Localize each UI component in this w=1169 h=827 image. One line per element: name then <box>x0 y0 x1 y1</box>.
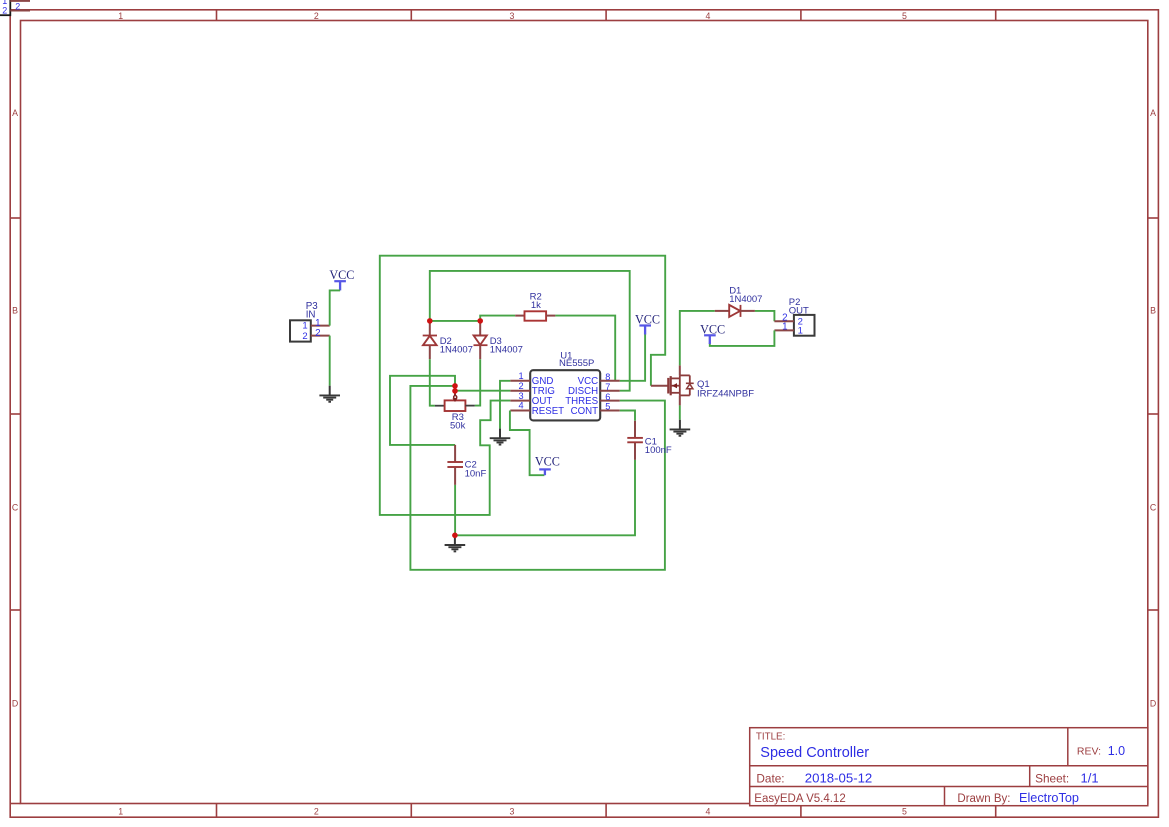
transistor Q1 IRFZ44NPBF <box>651 365 754 405</box>
svg-text:1N4007: 1N4007 <box>729 294 762 305</box>
wire DISCH pin7 to D2 junction <box>430 271 630 391</box>
svg-text:3: 3 <box>510 807 515 817</box>
wire P3 pin2 to ground <box>329 336 331 386</box>
svg-text:B: B <box>12 306 18 316</box>
wire D2 to R3 left <box>430 359 435 406</box>
svg-text:6: 6 <box>605 392 610 402</box>
svg-text:RESET: RESET <box>532 406 564 417</box>
svg-text:EasyEDA V5.4.12: EasyEDA V5.4.12 <box>754 793 845 805</box>
wire VCC pin8 to VCC flag <box>620 334 645 381</box>
svg-text:D: D <box>12 699 18 709</box>
wire C2 bottom to ground junction <box>454 485 456 535</box>
svg-text:1k: 1k <box>531 300 541 311</box>
svg-text:1: 1 <box>118 11 123 21</box>
node ground junction <box>452 533 458 539</box>
capacitor C1 100nF <box>627 421 672 460</box>
svg-text:3: 3 <box>518 391 523 401</box>
svg-text:1N4007: 1N4007 <box>490 345 523 356</box>
net flag VCC (at P2) <box>700 323 725 344</box>
svg-text:4: 4 <box>706 11 711 21</box>
svg-text:2018-05-12: 2018-05-12 <box>805 771 872 786</box>
svg-text:1: 1 <box>118 807 123 817</box>
svg-text:Date:: Date: <box>756 772 784 786</box>
svg-text:A: A <box>1150 108 1156 118</box>
connector P1 (cut off at sheet corner) <box>0 0 30 15</box>
diode D2 1N4007 <box>423 321 473 359</box>
svg-text:D: D <box>1150 699 1156 709</box>
wire C1 bottom to ground junction <box>455 460 635 535</box>
svg-text:OUT: OUT <box>789 306 809 317</box>
svg-text:A: A <box>12 108 18 118</box>
svg-text:4: 4 <box>518 401 523 411</box>
svg-text:2: 2 <box>314 807 319 817</box>
net flag VCC (at RESET) <box>535 454 560 475</box>
wire D2-D3 top rail <box>430 316 515 321</box>
wire Q1 source to ground <box>679 405 681 419</box>
svg-text:REV:: REV: <box>1077 746 1101 758</box>
connector P3 <box>290 301 330 342</box>
svg-text:Speed Controller: Speed Controller <box>760 745 869 761</box>
ic U1 NE555P <box>510 350 620 420</box>
connector P2 <box>774 297 814 337</box>
wire Q1 drain to D1 <box>680 311 715 366</box>
wire TRIG pin2 to junction <box>455 390 510 392</box>
svg-text:B: B <box>1150 306 1156 316</box>
svg-text:IRFZ44NPBF: IRFZ44NPBF <box>697 389 754 400</box>
capacitor C2 10nF <box>447 445 486 485</box>
wire R2 to U1 pin8 <box>555 316 615 381</box>
svg-text:1N4007: 1N4007 <box>440 345 473 356</box>
svg-text:3: 3 <box>510 11 515 21</box>
svg-text:2: 2 <box>302 331 307 342</box>
svg-text:2: 2 <box>314 11 319 21</box>
node junction TRIG lower <box>452 388 458 394</box>
svg-text:2: 2 <box>518 381 523 391</box>
wire RESET pin4 to VCC <box>510 411 545 476</box>
wire junction link <box>454 386 456 391</box>
net flag VCC (at U1 pin8) <box>635 313 660 335</box>
wire OUT pin3 loop to Q1 gate <box>380 256 665 515</box>
diode D1 1N4007 <box>715 285 763 317</box>
svg-text:Drawn By:: Drawn By: <box>957 793 1010 805</box>
node junction D3 <box>477 318 483 324</box>
wire THRES pin6 to TRIG junction (bottom loop) <box>410 386 665 570</box>
svg-text:4: 4 <box>706 807 711 817</box>
potentiometer R3 50k <box>435 391 475 432</box>
ground (U1 pin1) <box>490 429 511 445</box>
wire U1 GND pin1 to ground <box>500 381 510 429</box>
wire P2 pin1 to VCC <box>710 330 775 346</box>
ground (Q1 source) <box>670 420 691 436</box>
svg-text:5: 5 <box>902 11 907 21</box>
wire D1 to P2 pin2 <box>755 311 775 321</box>
svg-text:5: 5 <box>902 807 907 817</box>
svg-text:2: 2 <box>2 5 7 15</box>
svg-text:C: C <box>12 503 19 513</box>
wire P3 pin1 to VCC <box>330 290 340 325</box>
svg-text:C: C <box>1150 503 1157 513</box>
ground (P3) <box>319 386 340 402</box>
net flag VCC (at P3) <box>329 268 354 290</box>
svg-text:10nF: 10nF <box>465 469 487 480</box>
wire CONT pin5 to C1 <box>620 411 635 421</box>
svg-text:2: 2 <box>315 328 320 339</box>
svg-text:Sheet:: Sheet: <box>1035 772 1069 786</box>
svg-text:2: 2 <box>15 1 20 11</box>
wire D3 to R3 right <box>475 359 480 405</box>
svg-text:7: 7 <box>605 382 610 392</box>
svg-text:ElectroTop: ElectroTop <box>1019 791 1079 805</box>
ground (C2 junction) <box>445 535 466 551</box>
svg-text:NE555P: NE555P <box>559 358 594 369</box>
svg-text:1: 1 <box>782 322 787 333</box>
svg-text:CONT: CONT <box>571 406 599 417</box>
svg-text:1/1: 1/1 <box>1081 771 1099 786</box>
svg-text:1.0: 1.0 <box>1108 744 1125 758</box>
svg-text:VCC: VCC <box>535 454 560 468</box>
node junction D2 <box>427 318 433 324</box>
svg-text:IN: IN <box>306 309 316 320</box>
svg-text:8: 8 <box>605 372 610 382</box>
svg-text:5: 5 <box>605 402 610 412</box>
diode D3 1N4007 <box>474 321 523 359</box>
svg-text:1: 1 <box>518 371 523 381</box>
svg-text:TITLE:: TITLE: <box>756 732 785 743</box>
title block <box>750 728 1148 806</box>
svg-text:50k: 50k <box>450 420 466 431</box>
wire C2 branch (junction to C2 top) <box>390 376 455 445</box>
node junction TRIG upper <box>452 383 458 389</box>
svg-text:1: 1 <box>798 326 803 337</box>
svg-text:100nF: 100nF <box>645 445 672 456</box>
resistor R2 1k <box>515 291 555 320</box>
